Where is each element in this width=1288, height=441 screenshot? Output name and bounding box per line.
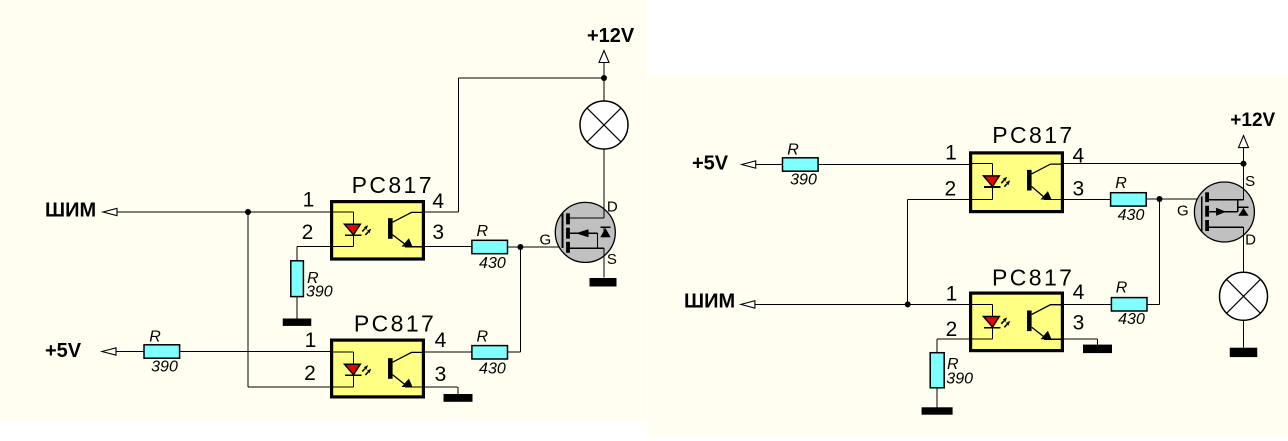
pin number 1 of U1 xyxy=(303,189,315,212)
U4 LED anode/cathode internal wiring xyxy=(971,304,993,339)
svg-text:4: 4 xyxy=(1073,281,1085,304)
+5V terminal arrow right xyxy=(742,161,756,168)
wire R1 to pin1 of U2 xyxy=(180,351,331,353)
svg-text:+5V: +5V xyxy=(45,340,82,362)
wire pin2 U4 to R8 xyxy=(937,339,970,353)
right schematic background xyxy=(649,75,1288,436)
pin number 4 of U4 xyxy=(1073,281,1085,304)
wire pin3 U3 to R6 xyxy=(1063,199,1111,201)
U4 light emission arrows xyxy=(1001,317,1010,327)
+12V power arrow left xyxy=(599,51,609,79)
value 430 of R3 xyxy=(479,255,506,272)
net label SHIM right xyxy=(684,291,735,313)
pin number 2 of U3 xyxy=(944,177,956,200)
svg-text:S: S xyxy=(1245,173,1255,190)
U1 LED anode/cathode internal wiring xyxy=(332,212,354,247)
net label +12V left xyxy=(587,25,635,47)
svg-text:4: 4 xyxy=(435,329,447,352)
svg-text:390: 390 xyxy=(790,172,817,189)
wire pin3 U4 to ground xyxy=(1063,338,1098,340)
pin number 4 of U1 xyxy=(432,190,444,213)
resistor R4 430 horizontal xyxy=(472,346,508,359)
node SHIM junction xyxy=(245,209,251,215)
label PC817 of U4 xyxy=(992,265,1074,291)
wire +5V to R1 xyxy=(116,351,144,353)
optocoupler U2 PC817 body xyxy=(332,340,424,397)
value 390 of R5 xyxy=(790,172,817,189)
wire R3 to gate node xyxy=(508,246,563,248)
resistor R7 430 horizontal xyxy=(1111,298,1147,311)
SHIM terminal arrow right xyxy=(741,301,755,308)
svg-text:R: R xyxy=(1115,175,1127,192)
wire pin4 U1 up to +12V rail xyxy=(424,78,604,212)
label PC817 of U1 xyxy=(352,172,434,198)
net label +12V right xyxy=(1230,110,1275,131)
svg-text:3: 3 xyxy=(435,363,447,386)
ground at pin3 U2 xyxy=(444,387,473,402)
lamp HL2 xyxy=(1220,272,1268,320)
label R of R3 xyxy=(477,223,489,240)
svg-text:390: 390 xyxy=(151,359,178,376)
ground below R2 xyxy=(283,297,312,326)
wire lamp to ground right xyxy=(1243,320,1245,347)
pin number 4 of U2 xyxy=(435,329,447,352)
node +12V junction right xyxy=(1241,161,1247,167)
svg-text:430: 430 xyxy=(479,255,506,272)
+5V terminal arrow left xyxy=(102,348,116,355)
svg-text:1: 1 xyxy=(945,142,957,165)
svg-text:G: G xyxy=(540,232,552,249)
svg-text:PC817: PC817 xyxy=(354,311,436,337)
resistor R2 390 vertical xyxy=(291,261,304,297)
lamp HL1 xyxy=(580,101,628,149)
wire pin2 U1 to R2 xyxy=(297,247,331,261)
wire pin2 U3 down to SHIM node xyxy=(908,200,970,305)
svg-text:R: R xyxy=(787,142,799,159)
wire pin4 U3 to +12V node xyxy=(1063,163,1244,165)
svg-text:PC817: PC817 xyxy=(992,265,1074,291)
label R of R2 xyxy=(307,270,319,287)
wire SHIM junction down xyxy=(247,212,249,387)
optocoupler U1 PC817 body xyxy=(332,202,424,259)
value 390 of R1 xyxy=(151,359,178,376)
pin number 2 of U4 xyxy=(946,318,958,341)
label R of R7 xyxy=(1116,280,1128,297)
svg-text:+5V: +5V xyxy=(692,153,729,175)
pin number 1 of U3 xyxy=(945,142,957,165)
ground at pin3 U4 xyxy=(1083,339,1112,353)
optocoupler U3 PC817 body xyxy=(971,153,1063,212)
wire gate node down to R7 xyxy=(1146,199,1160,304)
svg-text:+12V: +12V xyxy=(1230,110,1275,131)
U2 LED anode/cathode internal wiring xyxy=(332,352,354,387)
resistor R8 390 vertical xyxy=(930,353,944,388)
label G of Q1 xyxy=(540,232,552,249)
value 430 of R4 xyxy=(479,360,506,377)
svg-text:G: G xyxy=(1177,202,1189,219)
U1 phototransistor xyxy=(388,212,423,246)
svg-text:R: R xyxy=(477,328,489,345)
left schematic background xyxy=(0,0,647,421)
value 390 of R8 xyxy=(946,371,973,388)
pin number 3 of U1 xyxy=(432,221,444,244)
ground below R8 xyxy=(922,388,953,415)
pin number 1 of U4 xyxy=(946,283,958,306)
resistor R5 390 horizontal xyxy=(783,158,819,171)
U1 red LED xyxy=(345,224,362,235)
node +12V junction left xyxy=(601,75,607,81)
wire SHIM to pin1 of U1 xyxy=(117,211,331,213)
wire Q2 drain to lamp xyxy=(1243,242,1245,272)
label D of Q1 xyxy=(607,199,618,216)
svg-text:ШИМ: ШИМ xyxy=(45,200,96,222)
U3 phototransistor xyxy=(1027,164,1062,199)
SHIM terminal arrow left xyxy=(103,208,117,215)
label R of R5 xyxy=(787,142,799,159)
wire gate node down to R4 xyxy=(508,247,521,352)
U3 LED anode/cathode internal wiring xyxy=(971,164,993,200)
node SHIM junction right xyxy=(905,301,911,307)
svg-text:430: 430 xyxy=(1118,207,1145,224)
svg-text:R: R xyxy=(477,223,489,240)
wire lamp to MOSFET drain xyxy=(603,149,605,203)
+12V power arrow right xyxy=(1239,136,1249,164)
svg-text:1: 1 xyxy=(303,189,315,212)
ground below lamp right xyxy=(1230,348,1258,357)
svg-text:2: 2 xyxy=(944,177,956,200)
label R of R1 xyxy=(149,329,161,346)
U1 light emission arrows xyxy=(362,225,371,235)
label D of Q2 xyxy=(1245,232,1256,249)
label G of Q2 xyxy=(1177,202,1189,219)
wire R6 to gate of Q2 xyxy=(1146,198,1202,200)
wire R5 to pin1 of U3 xyxy=(818,164,970,166)
svg-text:D: D xyxy=(1245,232,1256,249)
label R of R4 xyxy=(477,328,489,345)
MOSFET Q2 p-channel xyxy=(1194,182,1254,242)
svg-text:2: 2 xyxy=(946,318,958,341)
wire pin3 U2 to ground xyxy=(424,386,458,388)
value 430 of R6 xyxy=(1118,207,1145,224)
wire SHIM to pin1 of U4 xyxy=(755,303,970,305)
node gate junction left xyxy=(517,244,523,250)
wire to pin2 of U2 xyxy=(248,386,331,388)
pin number 3 of U4 xyxy=(1073,311,1085,334)
U4 red LED xyxy=(984,317,1001,328)
pin number 1 of U2 xyxy=(305,329,317,352)
value 430 of R7 xyxy=(1118,311,1145,328)
svg-text:R: R xyxy=(1116,280,1128,297)
svg-text:S: S xyxy=(607,251,617,268)
pin number 3 of U2 xyxy=(435,363,447,386)
svg-text:2: 2 xyxy=(304,362,316,385)
wire +12V node to lamp xyxy=(603,78,605,101)
net label +5V left xyxy=(45,340,82,362)
value 390 of R2 xyxy=(306,284,333,301)
wire +5V to R5 xyxy=(756,164,783,166)
label S of Q2 xyxy=(1245,173,1255,190)
U3 light emission arrows xyxy=(1001,177,1010,187)
label R of R6 xyxy=(1115,175,1127,192)
wire pin4 U4 to R7 xyxy=(1063,303,1111,305)
svg-text:D: D xyxy=(607,199,618,216)
wire pin3 U1 to R3 xyxy=(424,246,472,248)
svg-text:3: 3 xyxy=(1072,177,1084,200)
resistor R1 390 horizontal xyxy=(144,345,180,358)
svg-text:430: 430 xyxy=(479,360,506,377)
wire pin4 U2 to R4 xyxy=(424,351,472,353)
pin number 2 of U1 xyxy=(302,221,314,244)
U2 light emission arrows xyxy=(362,365,371,375)
net label SHIM (PWM) left xyxy=(45,200,96,222)
svg-text:3: 3 xyxy=(1073,311,1085,334)
svg-text:390: 390 xyxy=(946,371,973,388)
svg-text:2: 2 xyxy=(302,221,314,244)
svg-text:4: 4 xyxy=(432,190,444,213)
label PC817 of U2 xyxy=(354,311,436,337)
ground at Q1 source xyxy=(590,278,617,287)
node gate junction right xyxy=(1157,196,1163,202)
svg-text:390: 390 xyxy=(306,284,333,301)
svg-text:+12V: +12V xyxy=(587,25,635,47)
pin number 3 of U3 xyxy=(1072,177,1084,200)
optocoupler U4 PC817 body xyxy=(971,293,1063,351)
label R of R8 xyxy=(947,356,959,373)
U2 phototransistor xyxy=(388,352,423,387)
pin number 2 of U2 xyxy=(304,362,316,385)
svg-text:3: 3 xyxy=(432,221,444,244)
wire Q1 source to ground xyxy=(603,262,605,277)
net label +5V right xyxy=(692,153,729,175)
wire +12V node to Q2 source xyxy=(1243,164,1245,182)
svg-text:430: 430 xyxy=(1118,311,1145,328)
svg-text:PC817: PC817 xyxy=(992,122,1074,148)
U3 red LED xyxy=(984,176,1001,187)
pin number 4 of U3 xyxy=(1072,144,1084,167)
MOSFET Q1 n-channel xyxy=(555,202,615,262)
U4 phototransistor xyxy=(1027,305,1062,340)
svg-text:R: R xyxy=(149,329,161,346)
label S of Q1 xyxy=(607,251,617,268)
svg-text:PC817: PC817 xyxy=(352,172,434,198)
resistor R6 430 horizontal xyxy=(1111,193,1147,206)
svg-text:1: 1 xyxy=(305,329,317,352)
U2 red LED xyxy=(345,364,362,375)
svg-text:ШИМ: ШИМ xyxy=(684,291,735,313)
svg-text:1: 1 xyxy=(946,283,958,306)
label PC817 of U3 xyxy=(992,122,1074,148)
resistor R3 430 horizontal xyxy=(472,240,508,253)
